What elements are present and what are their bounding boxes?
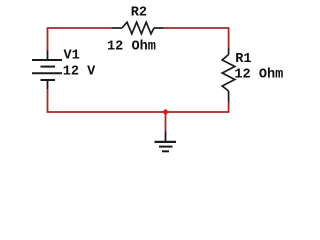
svg-text:R2: R2 (131, 6, 147, 21)
svg-text:R1: R1 (235, 52, 251, 67)
svg-text:V1: V1 (64, 49, 80, 64)
svg-text:12 Ohm: 12 Ohm (234, 68, 283, 83)
svg-text:12 V: 12 V (63, 65, 96, 80)
svg-text:12 Ohm: 12 Ohm (107, 39, 156, 54)
